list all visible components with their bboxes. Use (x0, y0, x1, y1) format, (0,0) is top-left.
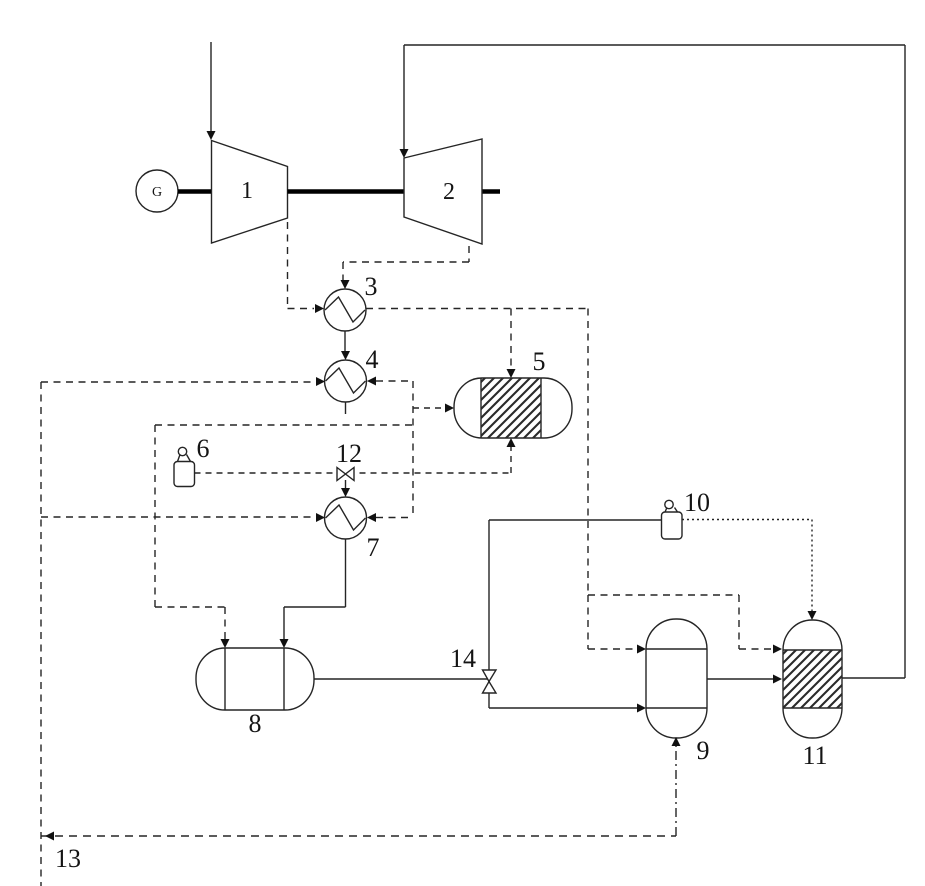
arrowhead into vessel 5 top (507, 369, 516, 378)
arrowhead at bottom left corner (45, 832, 54, 841)
hatch fill of vessel 11 (725, 632, 922, 712)
arrowhead into vessel 8 top right feed (280, 639, 289, 648)
wire dashed drop into vessel 8 left feed (224, 607, 226, 639)
valve 12 (337, 468, 346, 481)
hatch fill of vessel 5 (421, 362, 618, 442)
arrowhead into turbine 1 top (207, 131, 216, 140)
wire dashed box right edge vertical (412, 381, 414, 517)
arrowhead into vessel 11 upper left (773, 645, 782, 654)
bottle 10 (665, 500, 673, 508)
wire dashed inner box bottom (155, 606, 225, 608)
svg-text:6: 6 (197, 434, 210, 463)
wire valve 14 down to vessel 9 lower left (489, 707, 637, 709)
svg-text:1: 1 (241, 178, 253, 204)
arrowhead into vessel 9 upper left (637, 645, 646, 654)
wire dashed bottom stream 13 (41, 835, 676, 837)
arrowhead into turbine 2 top (400, 149, 409, 158)
arrowhead into vessel 5 left (445, 404, 454, 413)
arrowhead into HX7 top (341, 488, 350, 497)
heat exchanger HX7 (325, 497, 367, 539)
vessel 5 (454, 378, 572, 438)
arrowhead into HX3 left (315, 304, 324, 313)
svg-text:14: 14 (450, 644, 476, 673)
wire dashed from bottle 6 to vessel 5 riser (195, 472, 512, 474)
wire turbine 2 exhaust dashed to HX3 top (343, 246, 469, 280)
wire right vertical loop (904, 45, 906, 678)
svg-text:10: 10 (684, 488, 710, 517)
svg-text:13: 13 (55, 844, 81, 873)
wire dashed drop into vessel 5 top (510, 309, 512, 370)
wire dashed junction down to vessels (588, 595, 773, 649)
svg-text:3: 3 (365, 272, 378, 301)
heat exchanger HX4 (325, 360, 367, 402)
svg-text:4: 4 (366, 345, 379, 374)
wire vessel 9 outlet to vessel 11 (707, 678, 773, 680)
arrowhead into HX3 top (341, 280, 350, 289)
svg-text:8: 8 (249, 709, 262, 738)
wire dotted bottle 10 to vessel 11 top (682, 520, 812, 612)
bottle 6 (178, 447, 186, 455)
arrowhead into vessel 5 bottom (507, 438, 516, 447)
wire dashed down to vessel 9 upper left (588, 595, 637, 649)
svg-text:11: 11 (802, 741, 827, 770)
vessel 8 (196, 648, 314, 710)
arrowhead into vessel 9 bottom (672, 737, 681, 746)
arrowhead into HX4 left (316, 377, 325, 386)
vessel 11 (783, 620, 842, 738)
svg-text:G: G (152, 185, 162, 200)
wire dashed outer line to HX4 left (41, 381, 316, 383)
valve 14 (483, 670, 497, 682)
svg-text:12: 12 (336, 439, 362, 468)
heat exchanger HX3 (324, 289, 366, 331)
wire dashed into vessel 5 left (413, 407, 445, 409)
turbine 2 (404, 139, 482, 244)
arrowhead into HX7 right (367, 513, 376, 522)
wire dash-dot up into vessel 9 bottom (675, 746, 677, 836)
wire dashed outer left vertical (40, 382, 42, 886)
svg-text:2: 2 (443, 179, 455, 205)
wire dashed inner box left (154, 425, 156, 607)
wire feed line into turbine 1 (210, 42, 212, 131)
wire dashed outer line to HX7 left (41, 516, 316, 518)
wire HX4 bottom stub (345, 402, 347, 414)
svg-text:9: 9 (697, 736, 710, 765)
wire dashed inner box top (155, 424, 413, 426)
wire valve 14 vertical line (488, 520, 490, 708)
shaft generator to turbine 1 (178, 189, 211, 194)
generator G circle (136, 170, 178, 212)
arrowhead into HX7 left (316, 513, 325, 522)
wire dashed from HX4 right to box right edge (376, 380, 413, 382)
wire valve 12 to HX7 top (345, 480, 347, 489)
arrowhead into vessel 8 top left (221, 639, 230, 648)
turbine 1 (212, 141, 288, 244)
wire dashed HX3 right to junction and down (366, 309, 588, 596)
arrowhead into vessel 11 top (808, 611, 817, 620)
wire feed into turbine 2 from top loop (403, 45, 405, 149)
shaft stub right of turbine 2 (482, 189, 500, 194)
arrowhead into HX4 top (341, 351, 350, 360)
wire loop into vessel 11 right (842, 677, 905, 679)
arrowhead into HX4 right (367, 377, 376, 386)
wire top horizontal loop (404, 44, 905, 46)
shaft turbine 1 to turbine 2 (288, 189, 405, 194)
arrowhead into vessel 11 left (773, 675, 782, 684)
arrowhead into vessel 9 lower left (637, 704, 646, 713)
wire turbine 1 exhaust dashed to HX3 left (288, 222, 315, 309)
wire HX7 bottom to vessel 8 (284, 539, 346, 639)
vessel 9 (646, 619, 707, 738)
wire vessel 8 outlet to valve 14 (314, 678, 489, 680)
wire HX3 bottom to HX4 top (344, 331, 346, 352)
wire dashed from HX7 right to box right edge (376, 517, 413, 519)
svg-text:5: 5 (533, 347, 546, 376)
wire dashed up into vessel 5 bottom (510, 447, 512, 473)
svg-text:7: 7 (367, 533, 380, 562)
wire valve 14 riser to bottle 10 (489, 519, 661, 521)
